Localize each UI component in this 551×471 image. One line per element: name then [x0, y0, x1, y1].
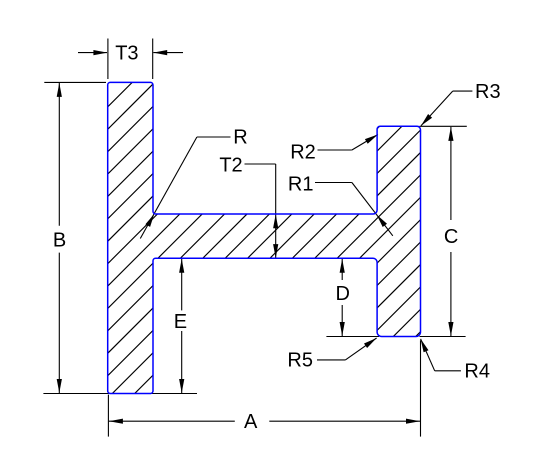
A left extension line	[107, 395, 109, 437]
T2 leader	[245, 163, 276, 165]
E label	[174, 311, 187, 333]
R3 leader	[453, 90, 473, 92]
D bottom extension line	[326, 336, 379, 338]
R label	[233, 127, 247, 149]
C top extension line	[420, 125, 467, 127]
svg-text:D: D	[335, 283, 349, 305]
C label	[444, 226, 458, 248]
T3 dimension arrow right	[153, 52, 183, 54]
B dimension line	[58, 83, 60, 226]
A right extension line	[420, 340, 422, 436]
blue H-beam profile outline	[108, 82, 421, 393]
svg-text:T3: T3	[115, 43, 138, 65]
svg-text:T2: T2	[219, 155, 242, 177]
E dimension line	[181, 259, 183, 311]
B/E bottom extension line	[43, 393, 197, 395]
B label	[53, 230, 66, 252]
R leader	[197, 136, 231, 138]
svg-text:R3: R3	[475, 81, 501, 103]
C bottom extension line	[420, 336, 466, 338]
A label	[244, 411, 258, 433]
R1 leader	[315, 182, 352, 184]
svg-text:C: C	[444, 226, 458, 248]
B top extension line	[44, 81, 106, 83]
R2 label	[290, 142, 316, 164]
T3 label	[115, 43, 138, 65]
T2 label	[219, 155, 242, 177]
R4 label	[464, 361, 490, 383]
svg-text:E: E	[174, 311, 187, 333]
R3 label	[475, 81, 501, 103]
R2 leader	[318, 149, 352, 151]
T3 dimension arrow left	[78, 52, 107, 54]
C dimension line	[450, 127, 452, 220]
svg-text:R2: R2	[290, 142, 316, 164]
R4 leader	[435, 370, 461, 372]
svg-text:R4: R4	[464, 361, 490, 383]
D dimension line	[341, 259, 343, 280]
R5 leader	[317, 359, 345, 361]
svg-text:R5: R5	[287, 350, 313, 372]
A dimension line	[109, 420, 235, 422]
svg-text:B: B	[53, 230, 66, 252]
D label	[335, 283, 349, 305]
svg-text:A: A	[244, 411, 258, 433]
T3 extension line right	[152, 39, 154, 80]
T3 extension line left	[107, 39, 109, 80]
svg-text:R: R	[233, 127, 247, 149]
R5 label	[287, 350, 313, 372]
svg-text:R1: R1	[288, 174, 314, 196]
R1 label	[288, 174, 314, 196]
